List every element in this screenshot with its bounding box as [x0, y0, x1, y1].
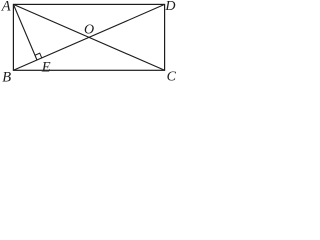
svg-text:C: C	[167, 69, 177, 84]
svg-text:O: O	[84, 23, 94, 38]
diagonal AC	[13, 4, 164, 70]
svg-text:A: A	[1, 0, 11, 15]
svg-text:B: B	[2, 69, 11, 84]
svg-text:E: E	[41, 59, 51, 75]
segment AE (perpendicular from A to BD)	[13, 4, 37, 60]
diagonal BD	[13, 4, 164, 70]
svg-text:D: D	[164, 0, 175, 14]
rectangle ABCD	[13, 4, 164, 70]
right-angle mark at E	[35, 53, 42, 58]
